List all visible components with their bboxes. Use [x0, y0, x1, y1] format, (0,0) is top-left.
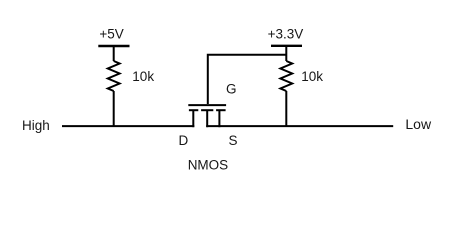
svg-text:+5V: +5V — [99, 27, 123, 42]
wire: main rail right (Low side) — [206, 125, 393, 127]
svg-text:10k: 10k — [132, 69, 154, 84]
transistor Q1 channel segment (body) — [201, 109, 213, 111]
svg-text:10k: 10k — [301, 69, 323, 84]
transistor Q1 drain lead — [192, 110, 194, 127]
wire: +5V bar down to R1 — [113, 46, 115, 61]
svg-text:D: D — [179, 133, 189, 148]
transistor Q1 gate plate — [188, 104, 226, 106]
supply +5V rail bar — [98, 45, 129, 47]
transistor Q1 channel segment (source side) — [216, 109, 226, 111]
wire: R1 down to main rail — [113, 91, 115, 127]
svg-text:High: High — [22, 118, 50, 133]
svg-text:+3.3V: +3.3V — [268, 27, 304, 42]
svg-text:Low: Low — [405, 116, 432, 132]
svg-text:NMOS: NMOS — [188, 158, 229, 173]
resistor R2 10k — [280, 61, 292, 91]
wire: R2 down to main rail — [285, 91, 287, 127]
supply +3.3V rail bar — [271, 45, 302, 47]
resistor R1 10k — [108, 61, 120, 91]
wire: main rail left (High side) — [62, 125, 194, 127]
transistor Q1 channel segment (drain side) — [189, 109, 198, 111]
transistor Q1 source lead — [218, 110, 220, 127]
wire: gate of Q1 up and right to +3.3V node — [208, 55, 286, 104]
transistor Q1 body lead — [206, 110, 208, 127]
svg-text:S: S — [229, 133, 238, 148]
svg-text:G: G — [226, 82, 237, 97]
wire: +3.3V bar down to R2 — [285, 46, 287, 61]
